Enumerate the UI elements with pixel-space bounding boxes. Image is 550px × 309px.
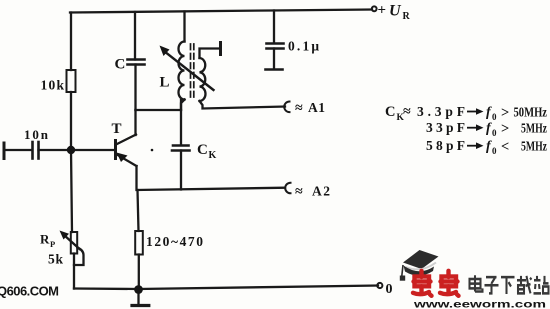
glyph xia (501, 277, 515, 294)
terminal bar secondary top (219, 43, 222, 55)
svg-text:A2: A2 (312, 184, 330, 199)
capacitor CK (173, 144, 189, 147)
logo character chong 2 (440, 271, 459, 296)
capacitor 0.1u lead to bar (273, 49, 275, 69)
capacitor 0.1u lead from rail (273, 11, 275, 44)
logo graduation cap highlight (406, 263, 436, 270)
svg-text:A1: A1 (308, 100, 325, 115)
wire left vertical lower to RP (71, 150, 72, 232)
wire left vertical upper (70, 13, 72, 71)
glyph zi (485, 277, 499, 293)
terminal A1 arc (284, 102, 289, 113)
svg-text:≈: ≈ (295, 101, 303, 116)
svg-text:C: C (385, 104, 395, 120)
wire collector vertical (134, 110, 136, 135)
inductor secondary winding (200, 58, 206, 101)
wire resistor to bottom rail (138, 255, 140, 290)
svg-text:0: 0 (492, 146, 497, 156)
potentiometer RP arrowhead (60, 231, 70, 240)
ground bar (132, 304, 149, 307)
svg-text:10n: 10n (24, 127, 49, 142)
variable inductor arrowhead (160, 46, 170, 57)
svg-text:C: C (115, 57, 126, 73)
logo text dianzi xiazai zhan (470, 275, 549, 294)
logo character chong 1 (413, 271, 432, 296)
svg-text:58pF: 58pF (426, 138, 465, 153)
svg-text:120~470: 120~470 (146, 234, 203, 249)
svg-text:≈: ≈ (295, 185, 303, 200)
transistor T collector stroke (116, 135, 136, 145)
svg-text:≈: ≈ (403, 105, 411, 120)
svg-text:R: R (403, 11, 411, 22)
capacitor 0.1u (267, 42, 284, 45)
input terminal bar (3, 143, 6, 159)
transistor T emitter stroke (116, 154, 137, 166)
annotation arrows in text block (467, 108, 484, 149)
wire A2 from emitter (137, 166, 286, 190)
svg-text:5MHz: 5MHz (521, 139, 547, 154)
svg-text:C: C (197, 142, 208, 158)
glyph zai (517, 276, 532, 294)
variable inductor arrow line (164, 51, 214, 90)
svg-text:K: K (209, 150, 217, 161)
transistor T base bar (114, 141, 117, 159)
svg-text:R: R (40, 232, 50, 247)
stray scan dot (151, 149, 154, 152)
annotation arrow line 3 (467, 145, 479, 147)
transistor T emitter arrowhead (117, 153, 128, 163)
svg-text:>: > (501, 105, 509, 121)
wire RP to bottom rail (73, 254, 75, 289)
transformer core dashes (190, 44, 192, 100)
terminal +UR (372, 6, 377, 11)
logo graduation cap board (403, 250, 439, 269)
svg-text:>: > (501, 121, 509, 137)
wire top rail +UR (70, 10, 372, 13)
annotation arrow line 2 (467, 127, 479, 129)
node bottom rail junction dot (134, 285, 143, 294)
svg-text:T: T (112, 121, 122, 137)
wire rail to capacitor C (134, 12, 136, 60)
node base junction dot (67, 146, 75, 154)
svg-text:5MHz: 5MHz (521, 121, 547, 136)
svg-text:33pF: 33pF (426, 120, 465, 135)
potentiometer RP arrow (64, 235, 80, 249)
capacitor C (128, 58, 145, 61)
wire CK to A2 line (180, 151, 182, 190)
svg-text:0: 0 (492, 128, 497, 138)
svg-text:www.eeworm.com: www.eeworm.com (412, 300, 546, 309)
resistor R 10k (67, 70, 76, 92)
resistor 120-470 body (135, 231, 143, 255)
wire collector tee (136, 109, 182, 111)
terminal bar under 0.1u (266, 68, 283, 71)
terminal A2 arc (285, 183, 290, 194)
svg-text:3.3pF: 3.3pF (417, 104, 465, 119)
wire base (39, 149, 115, 151)
svg-text:P: P (50, 239, 55, 249)
logo graduation cap crown (404, 266, 435, 276)
svg-text:+: + (378, 3, 387, 19)
svg-text:10k: 10k (41, 78, 65, 93)
potentiometer RP body (71, 232, 77, 254)
svg-text:0.1μ: 0.1μ (288, 39, 319, 54)
wire bottom rail (74, 286, 378, 290)
wire input to capacitor 10n (4, 149, 31, 151)
svg-text:L: L (160, 75, 170, 91)
glyph zhan (534, 276, 549, 294)
glyph dian (470, 275, 483, 291)
annotation arrow line 1 (467, 111, 479, 113)
svg-text:0: 0 (386, 282, 393, 297)
wire rail to inductor L (183, 12, 185, 42)
capacitor 10n (31, 142, 34, 159)
ground stem (137, 289, 139, 305)
svg-text:U: U (389, 3, 402, 20)
wire L bottom to CK (180, 100, 182, 145)
wire secondary bottom to A1 (200, 101, 286, 109)
annotation text block CK values (385, 104, 547, 156)
potentiometer RP wiper hook (74, 248, 84, 266)
wire capacitor C to collector (134, 65, 136, 111)
svg-text:50MHz: 50MHz (514, 105, 548, 120)
wire emitter to resistor (138, 190, 139, 231)
svg-text:0: 0 (492, 112, 497, 122)
svg-text:<: < (501, 139, 509, 155)
inductor L primary winding (179, 42, 185, 100)
wire secondary top to terminal (200, 49, 221, 59)
wire L primary bottom (181, 100, 185, 111)
terminal 0 (377, 283, 382, 288)
wire left vertical middle (70, 92, 72, 150)
svg-text:Q606.COM: Q606.COM (0, 284, 59, 299)
svg-text:5k: 5k (48, 252, 63, 267)
logo tassel (402, 265, 403, 276)
